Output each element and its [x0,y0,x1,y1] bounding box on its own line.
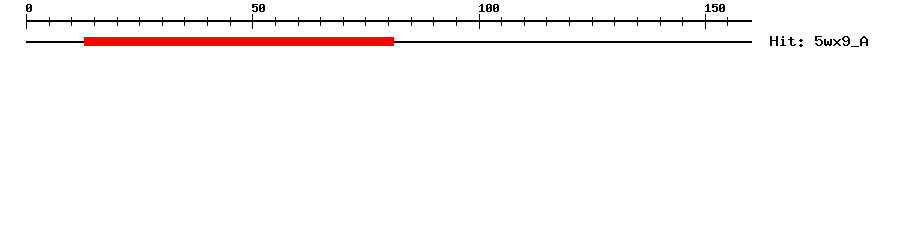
minor tick 60 [298,17,299,26]
major tick 150 [705,14,706,29]
minor tick 5 [49,17,50,26]
major tick 50 [252,14,253,29]
minor tick 110 [524,17,525,26]
minor tick 105 [501,17,502,26]
minor tick 90 [433,17,434,26]
minor tick 40 [207,17,208,26]
minor tick 55 [275,17,276,26]
minor tick 115 [546,17,547,26]
minor tick 35 [184,17,185,26]
major tick 100 [479,14,480,29]
minor tick 65 [320,17,321,26]
background [0,0,900,60]
ruler label 100 [479,4,499,12]
minor tick 140 [660,17,661,26]
ruler axis line [26,20,752,22]
minor tick 25 [139,17,140,26]
minor tick 20 [117,17,118,26]
minor tick 10 [71,17,72,26]
ruler label 150 [705,4,725,12]
minor tick 155 [727,17,728,26]
minor tick 120 [569,17,570,26]
query sequence line [26,41,752,43]
minor tick 95 [456,17,457,26]
minor tick 15 [94,17,95,26]
hit label: Hit: 5wx9_A [770,36,868,47]
minor tick 45 [230,17,231,26]
major tick 0 [26,14,27,29]
minor tick 85 [411,17,412,26]
ruler label 50 [252,4,265,12]
hit alignment bar (red) [84,37,394,46]
minor tick 80 [388,17,389,26]
minor tick 30 [162,17,163,26]
minor tick 75 [365,17,366,26]
minor tick 70 [343,17,344,26]
minor tick 145 [682,17,683,26]
minor tick 135 [637,17,638,26]
minor tick 125 [592,17,593,26]
minor tick 130 [614,17,615,26]
ruler label 0 [26,4,32,12]
